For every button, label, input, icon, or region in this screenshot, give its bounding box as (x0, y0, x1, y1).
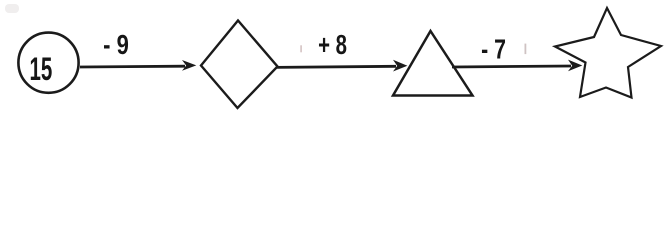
circle start node (18, 33, 78, 93)
stray mark 1 (300, 45, 302, 52)
svg-text:- 7: - 7 (481, 34, 506, 66)
arrowhead 1 (182, 60, 196, 71)
star (555, 8, 661, 98)
stray mark 2 (525, 44, 527, 55)
wire arrow 1 (80, 65, 185, 69)
wire arrow 2 (276, 66, 396, 67)
diamond (201, 21, 278, 109)
arrowhead 3 (568, 60, 582, 72)
triangle (393, 31, 473, 96)
wire arrow 3 (452, 66, 571, 67)
svg-text:+ 8: + 8 (318, 30, 347, 61)
svg-text:- 9: - 9 (103, 30, 129, 61)
scan smudge (5, 4, 19, 13)
svg-text:15: 15 (30, 51, 53, 87)
arrowhead 2 (393, 60, 407, 72)
